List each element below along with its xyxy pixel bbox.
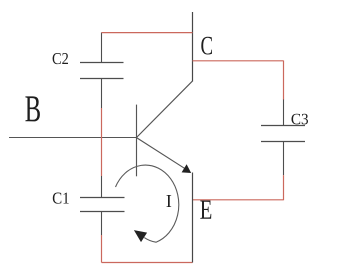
wire: [283, 61, 285, 100]
node B: [25, 96, 39, 121]
node E: [200, 200, 211, 218]
wire: [193, 60, 284, 62]
label C1: [53, 193, 69, 204]
node C: [201, 37, 212, 55]
label C3: [292, 114, 308, 125]
wire: [192, 12, 194, 82]
capacitor C1: [80, 176, 125, 235]
transistor Q1: [137, 81, 193, 176]
label C2: [53, 53, 68, 64]
wire: [102, 32, 193, 34]
wire: [193, 199, 284, 201]
capacitor C3: [261, 99, 305, 175]
current loop I: [116, 165, 179, 242]
wire: [102, 262, 193, 264]
wire: [283, 175, 285, 200]
wire: [101, 108, 103, 176]
wire: [192, 173, 194, 263]
wire: [9, 137, 137, 139]
label I: [166, 195, 171, 207]
capacitor C2: [80, 33, 124, 109]
wire: [101, 235, 103, 263]
